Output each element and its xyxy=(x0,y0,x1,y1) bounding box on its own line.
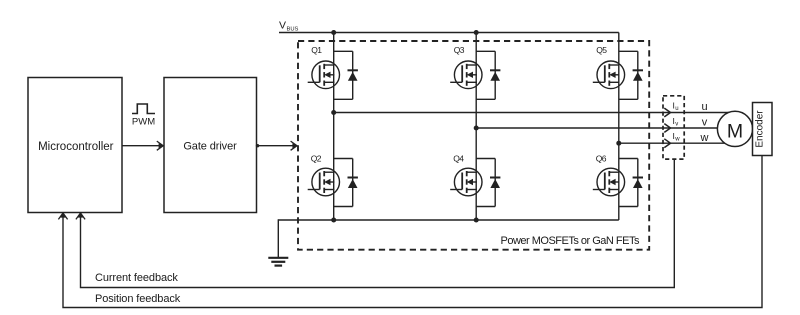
svg-text:Q4: Q4 xyxy=(453,154,464,164)
microcontroller block U1 xyxy=(28,78,122,213)
junction: ground rail / Q4 source xyxy=(474,218,479,223)
wire: PWM microcontroller to gate driver xyxy=(122,145,163,147)
svg-text:Microcontroller: Microcontroller xyxy=(38,141,114,153)
wire: half-bridge column Q5/Q6 xyxy=(618,33,620,221)
svg-text:Q6: Q6 xyxy=(596,154,607,164)
svg-text:BUS: BUS xyxy=(287,27,299,33)
body diode of Q5 xyxy=(619,51,643,99)
svg-text:v: v xyxy=(702,117,708,129)
transistor Q1 (high-side NMOS) xyxy=(308,61,340,89)
svg-text:Position feedback: Position feedback xyxy=(95,293,181,305)
dashed box: power stage xyxy=(298,41,649,250)
svg-text:M: M xyxy=(727,120,743,142)
gate driver block U2 xyxy=(164,78,257,213)
wire: half-bridge column Q3/Q4 xyxy=(475,33,477,221)
svg-text:v: v xyxy=(675,122,678,128)
svg-text:Current feedback: Current feedback xyxy=(95,272,178,284)
body diode of Q1 xyxy=(334,51,358,99)
ground symbol xyxy=(268,257,288,259)
body diode of Q4 xyxy=(476,159,500,207)
svg-text:Q5: Q5 xyxy=(596,45,607,55)
svg-text:u: u xyxy=(675,106,678,112)
svg-text:PWM: PWM xyxy=(132,117,155,128)
junction: ground rail / Q2 source xyxy=(331,218,336,223)
wire: phase W xyxy=(619,142,735,144)
wire: phase V xyxy=(476,127,735,129)
svg-text:w: w xyxy=(700,132,709,144)
wire: half-bridge column Q1/Q2 xyxy=(333,33,335,221)
body diode of Q2 xyxy=(334,159,358,207)
junction: phase U tap xyxy=(331,110,336,115)
transistor Q4 (low-side NMOS) xyxy=(450,168,482,196)
junction: phase W tap xyxy=(616,141,621,146)
PWM pulse symbol xyxy=(132,104,155,114)
svg-text:Encoder: Encoder xyxy=(755,110,766,148)
body diode of Q6 xyxy=(619,159,643,207)
dashed box: current sensing xyxy=(663,96,684,159)
wire: current feedback xyxy=(81,159,675,287)
svg-text:V: V xyxy=(279,20,286,32)
wire: ground bottom rail xyxy=(278,219,619,221)
svg-text:Power MOSFETs or GaN FETs: Power MOSFETs or GaN FETs xyxy=(501,235,640,247)
svg-text:Gate driver: Gate driver xyxy=(183,141,237,153)
svg-text:Q3: Q3 xyxy=(454,45,465,55)
wire: ground drop xyxy=(277,219,279,257)
transistor Q5 (high-side NMOS) xyxy=(593,61,625,89)
wire: gate driver output to inverter xyxy=(257,145,298,147)
motor M xyxy=(717,111,752,146)
transistor Q6 (low-side NMOS) xyxy=(593,168,625,196)
junction: V_BUS / Q1 drain xyxy=(331,30,336,35)
current arrow I_u xyxy=(664,108,670,117)
svg-text:w: w xyxy=(674,137,680,143)
wire: phase U xyxy=(334,112,735,114)
junction: phase V tap xyxy=(474,126,479,131)
svg-text:Q2: Q2 xyxy=(311,154,322,164)
wire: position feedback xyxy=(63,156,762,308)
encoder block xyxy=(753,103,773,156)
wire: V_BUS top rail xyxy=(279,32,619,34)
transistor Q2 (low-side NMOS) xyxy=(308,168,340,196)
junction: V_BUS / Q3 drain xyxy=(474,30,479,35)
current arrow I_w xyxy=(664,139,670,148)
transistor Q3 (high-side NMOS) xyxy=(450,61,482,89)
body diode of Q3 xyxy=(476,51,500,99)
current arrow I_v xyxy=(664,124,670,133)
svg-text:Q1: Q1 xyxy=(311,45,322,55)
svg-text:u: u xyxy=(701,101,707,113)
